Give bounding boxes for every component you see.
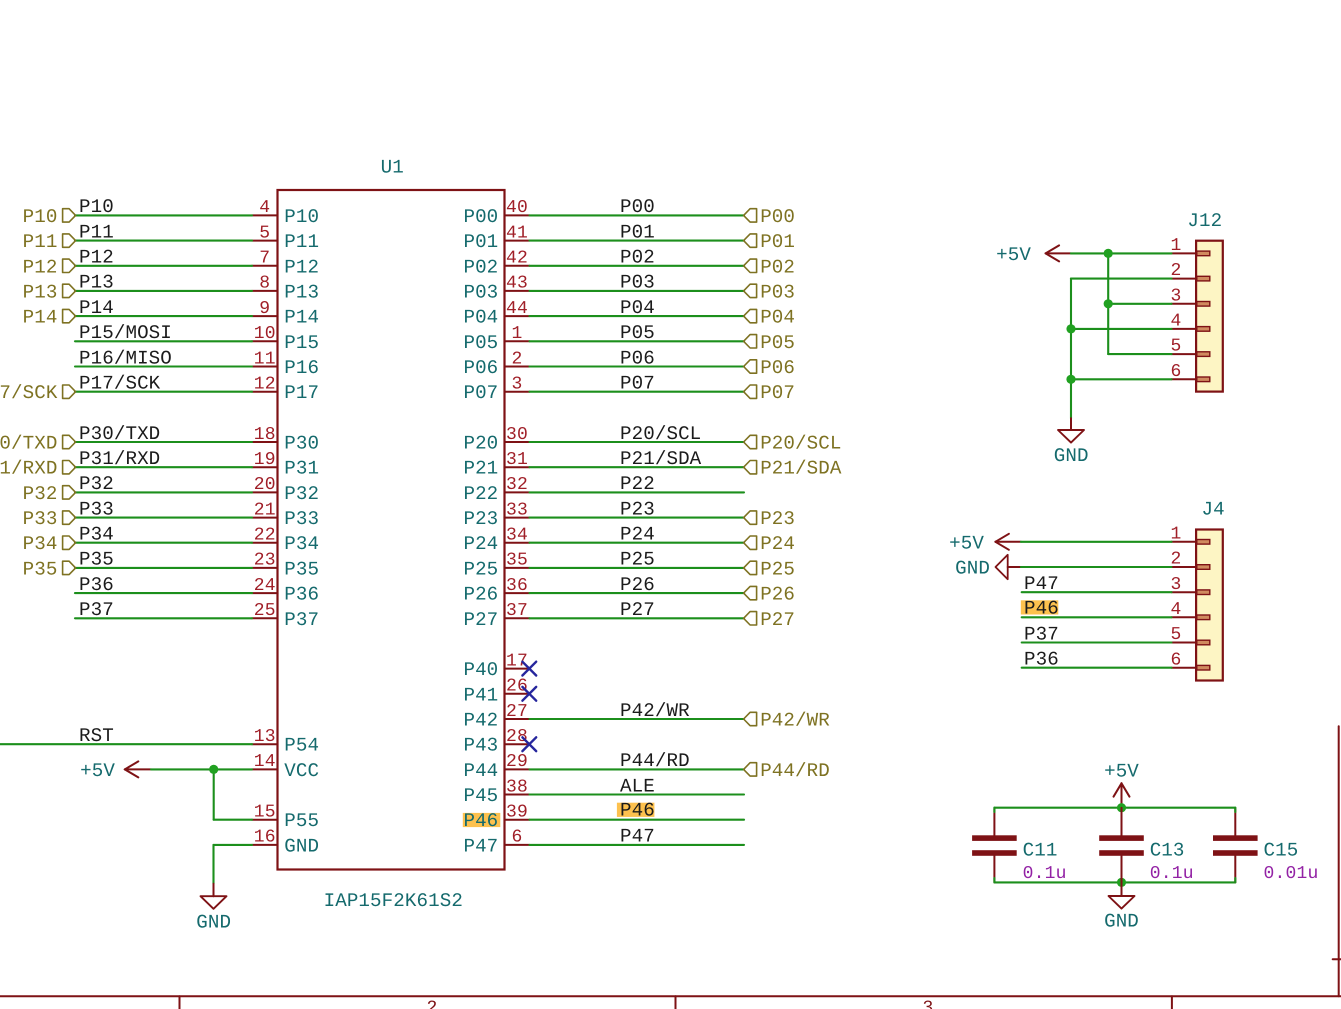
sheet border pin stub at right edge <box>1333 958 1341 960</box>
J12 pin 2 <box>1170 261 1209 281</box>
U1 pin 13 (P54) left side <box>252 727 319 757</box>
svg-text:33: 33 <box>506 500 528 520</box>
no-connect flag at U1 pin 28 <box>522 737 536 751</box>
wire net P31/RXD to U1 left <box>75 466 252 468</box>
ground symbol GND below C13 <box>1104 882 1139 932</box>
hierarchical label P27 (right) <box>744 609 795 631</box>
svg-text:P05: P05 <box>463 332 498 354</box>
wire net P05 from U1 right <box>530 340 745 342</box>
svg-text:P37: P37 <box>284 609 319 631</box>
U1 pin 29 (P44) right side <box>463 752 529 782</box>
hierarchical label P23 (right) <box>744 508 795 530</box>
wire bottom rail corner to C15 <box>1234 878 1236 882</box>
wire net P10 to U1 left <box>75 214 252 216</box>
U1 pin 9 (P14) left side <box>252 299 319 329</box>
svg-text:GND: GND <box>1104 911 1139 933</box>
U1 pin 38 (P45) right side <box>463 777 529 807</box>
power symbol +5V at U1 VCC <box>80 760 151 782</box>
svg-text:P03: P03 <box>463 281 498 303</box>
U1 pin 31 (P21) right side <box>463 450 529 480</box>
net label P42/WR <box>620 700 690 722</box>
net label P11 <box>79 221 114 243</box>
svg-text:P26: P26 <box>760 584 795 606</box>
svg-text:RST: RST <box>79 725 114 747</box>
hierarchical label P20/SCL (right) <box>744 433 842 455</box>
net label P04 <box>620 297 655 319</box>
IC U1 body <box>278 190 505 870</box>
U1 pin 40 (P00) right side <box>463 198 529 228</box>
hierarchical label P06 (right) <box>744 357 795 379</box>
svg-text:P54: P54 <box>284 735 319 757</box>
svg-text:P21/SDA: P21/SDA <box>620 448 702 470</box>
net label P07 <box>620 373 655 395</box>
net label P06 <box>620 347 655 369</box>
svg-text:P16: P16 <box>284 357 319 379</box>
svg-text:P42: P42 <box>463 710 498 732</box>
svg-text:8: 8 <box>259 274 270 294</box>
svg-text:P26: P26 <box>620 574 655 596</box>
wire net P33 to U1 left <box>75 517 252 519</box>
value 0.01u of C15 <box>1264 864 1319 884</box>
wire net P25 from U1 right <box>530 567 745 569</box>
svg-text:P10: P10 <box>23 206 58 228</box>
U1 pin 44 (P04) right side <box>463 299 529 329</box>
svg-text:C15: C15 <box>1264 840 1299 862</box>
wire +5V to U1 pin 14 <box>151 768 252 770</box>
svg-text:36: 36 <box>506 576 528 596</box>
svg-text:P32: P32 <box>79 473 114 495</box>
svg-text:P20/SCL: P20/SCL <box>760 433 841 455</box>
svg-text:28: 28 <box>506 727 528 747</box>
U1 pin 12 (P17) left side <box>252 375 319 405</box>
reference J4 <box>1202 499 1225 521</box>
U1 pin 3 (P07) right side <box>463 375 529 405</box>
net label P14 <box>79 297 114 319</box>
hierarchical label P24 (right) <box>744 533 795 555</box>
svg-text:P32: P32 <box>284 483 319 505</box>
net label P36 <box>79 574 114 596</box>
wire top rail corner to C15 <box>1234 808 1236 812</box>
U1 pin 32 (P22) right side <box>463 475 529 505</box>
wire net P44/RD from U1 right <box>530 768 745 770</box>
svg-text:P36: P36 <box>284 584 319 606</box>
svg-text:P21: P21 <box>463 458 498 480</box>
svg-text:P12: P12 <box>79 247 114 269</box>
net label P13 <box>79 272 114 294</box>
U1 pin 7 (P12) left side <box>252 249 319 279</box>
U1 pin 5 (P11) left side <box>252 223 319 253</box>
connector J12 body <box>1196 241 1223 392</box>
wire net P00 from U1 right <box>530 214 745 216</box>
svg-text:1: 1 <box>511 324 522 344</box>
svg-text:10: 10 <box>254 324 276 344</box>
svg-text:P20/SCL: P20/SCL <box>620 423 701 445</box>
net label P10 <box>79 196 114 218</box>
value 0.1u of C11 <box>1023 864 1067 884</box>
net label P00 <box>620 196 655 218</box>
U1 pin 28 (P43) right side <box>463 727 529 757</box>
wire net P17/SCK to U1 left <box>75 391 252 393</box>
svg-text:14: 14 <box>254 752 276 772</box>
svg-text:P26: P26 <box>463 584 498 606</box>
ground symbol GND below J12 <box>1054 418 1089 467</box>
U1 pin 26 (P41) right side <box>463 677 529 707</box>
svg-text:P35: P35 <box>284 558 319 580</box>
net label P27 <box>620 599 655 621</box>
svg-text:P20: P20 <box>463 433 498 455</box>
svg-text:P37: P37 <box>1024 623 1059 645</box>
wire net P01 from U1 right <box>530 240 745 242</box>
value IAP15F2K61S2 <box>324 890 463 912</box>
junction at +5V rail <box>1117 803 1126 812</box>
svg-text:P30/TXD: P30/TXD <box>79 423 160 445</box>
svg-text:P23: P23 <box>620 498 655 520</box>
sheet column number 2 <box>426 998 437 1009</box>
svg-text:P13: P13 <box>284 281 319 303</box>
svg-text:GND: GND <box>1054 445 1089 467</box>
svg-text:12: 12 <box>254 375 276 395</box>
svg-text:P06: P06 <box>620 347 655 369</box>
J4 pin 3 <box>1170 575 1209 595</box>
svg-text:6: 6 <box>511 828 522 848</box>
net label P20/SCL <box>620 423 701 445</box>
svg-text:+5V: +5V <box>996 244 1031 266</box>
svg-text:P44/RD: P44/RD <box>620 750 690 772</box>
junction at J12 pin 4 node <box>1066 324 1075 333</box>
wire net P26 from U1 right <box>530 592 745 594</box>
svg-text:20: 20 <box>254 475 276 495</box>
hierarchical label P12 (left) <box>23 256 76 278</box>
svg-text:P14: P14 <box>284 307 319 329</box>
svg-text:P02: P02 <box>620 247 655 269</box>
svg-text:J4: J4 <box>1202 499 1225 521</box>
svg-text:25: 25 <box>254 601 276 621</box>
wire net P20/SCL from U1 right <box>530 441 745 443</box>
svg-text:P05: P05 <box>760 332 795 354</box>
svg-text:P31/RXD: P31/RXD <box>0 458 58 480</box>
J12 pin 4 <box>1170 312 1209 332</box>
svg-text:U1: U1 <box>381 157 404 179</box>
hierarchical label P33 (left) <box>23 508 76 530</box>
svg-text:P45: P45 <box>463 785 498 807</box>
svg-text:P34: P34 <box>23 533 58 555</box>
net label P15/MOSI <box>79 322 172 344</box>
wire GND rail (bottom) <box>994 881 1235 883</box>
hierarchical label P05 (right) <box>744 332 795 354</box>
U1 pin 16 (GND) left side <box>252 828 319 858</box>
svg-text:C13: C13 <box>1150 840 1185 862</box>
hierarchical label P32 (left) <box>23 483 76 505</box>
svg-text:P02: P02 <box>463 256 498 278</box>
wire net P37 to U1 left <box>75 617 252 619</box>
svg-text:29: 29 <box>506 752 528 772</box>
hierarchical label P07 (right) <box>744 382 795 404</box>
svg-text:42: 42 <box>506 249 528 269</box>
svg-text:P42/WR: P42/WR <box>760 710 830 732</box>
svg-text:P21/SDA: P21/SDA <box>760 458 842 480</box>
svg-text:P13: P13 <box>23 281 58 303</box>
svg-text:P11: P11 <box>23 231 58 253</box>
net label P12 <box>79 247 114 269</box>
sheet border tick x=675 <box>675 996 677 1009</box>
wire net P24 from U1 right <box>530 542 745 544</box>
ground symbol GND below U1 <box>196 884 231 934</box>
svg-text:P47: P47 <box>620 826 655 848</box>
net label P37 <box>79 599 114 621</box>
net label ALE <box>620 775 655 797</box>
net label P33 <box>79 498 114 520</box>
net label P23 <box>620 498 655 520</box>
power symbol GND at J4 pin 2 <box>955 555 1021 580</box>
svg-text:P00: P00 <box>760 206 795 228</box>
hierarchical label P01 (right) <box>744 231 795 253</box>
U1 pin 22 (P34) left side <box>252 526 319 556</box>
svg-text:P22: P22 <box>620 473 655 495</box>
wire net P32 to U1 left <box>75 491 252 493</box>
junction at +5V/VCC node <box>209 765 218 774</box>
wire net P47 to J4 pin 3 <box>1022 591 1172 593</box>
wire net RST to U1 pin 13 <box>0 743 252 745</box>
hierarchical label P35 (left) <box>23 558 76 580</box>
svg-text:37: 37 <box>506 601 528 621</box>
hierarchical label P11 (left) <box>23 231 76 253</box>
svg-text:P40: P40 <box>463 659 498 681</box>
sheet border tick x=179 <box>179 996 181 1009</box>
svg-text:5: 5 <box>259 223 270 243</box>
svg-text:P14: P14 <box>79 297 114 319</box>
svg-text:P07: P07 <box>760 382 795 404</box>
svg-text:P46: P46 <box>620 800 655 822</box>
net label P44/RD <box>620 750 690 772</box>
hierarchical label P00 (right) <box>744 206 795 228</box>
svg-text:P33: P33 <box>79 498 114 520</box>
svg-text:P27: P27 <box>760 609 795 631</box>
sheet border tick x=1172 <box>1171 996 1173 1009</box>
U1 pin 35 (P25) right side <box>463 551 529 581</box>
U1 pin 18 (P30) left side <box>252 425 319 455</box>
svg-text:30: 30 <box>506 425 528 445</box>
svg-text:15: 15 <box>254 803 276 823</box>
net label P37 at J4 <box>1024 623 1059 645</box>
svg-text:P36: P36 <box>79 574 114 596</box>
svg-text:4: 4 <box>259 198 270 218</box>
U1 pin 39 (P46) right side <box>463 803 530 833</box>
svg-text:43: 43 <box>506 274 528 294</box>
wire GND to J4 pin 2 <box>1021 566 1172 568</box>
svg-text:GND: GND <box>196 912 231 934</box>
wire +5V rail (top) <box>994 807 1235 809</box>
U1 pin 41 (P01) right side <box>463 223 529 253</box>
net label RST <box>79 725 114 747</box>
svg-text:P42/WR: P42/WR <box>620 700 690 722</box>
svg-text:P30/TXD: P30/TXD <box>0 433 58 455</box>
svg-text:P34: P34 <box>284 533 319 555</box>
svg-text:P37: P37 <box>79 599 114 621</box>
svg-text:P46: P46 <box>463 810 498 832</box>
svg-text:P06: P06 <box>760 357 795 379</box>
wire net P07 from U1 right <box>530 391 745 393</box>
J4 pin 1 <box>1170 524 1209 544</box>
svg-text:+5V: +5V <box>80 760 115 782</box>
svg-text:P47: P47 <box>463 835 498 857</box>
svg-text:39: 39 <box>506 803 528 823</box>
net label P02 <box>620 247 655 269</box>
hierarchical label P21/SDA (right) <box>744 458 842 480</box>
svg-text:P00: P00 <box>463 206 498 228</box>
power symbol +5V at J4 pin 1 <box>949 532 1021 554</box>
J12 pin 5 <box>1170 337 1209 357</box>
net label P21/SDA <box>620 448 702 470</box>
power symbol +5V above C13 <box>1104 761 1139 808</box>
svg-text:0.01u: 0.01u <box>1264 864 1319 884</box>
svg-text:P35: P35 <box>79 549 114 571</box>
wire net P22 from U1 right <box>530 491 745 493</box>
hierarchical label P17/SCK (left) <box>0 382 76 404</box>
J4 pin 6 <box>1170 650 1209 670</box>
U1 pin 11 (P16) left side <box>252 349 319 379</box>
wire U1 pin 16 to GND <box>214 845 253 884</box>
hierarchical label P04 (right) <box>744 307 795 329</box>
U1 pin 43 (P03) right side <box>463 274 529 304</box>
hierarchical label P31/RXD (left) <box>0 458 76 480</box>
net label P36 at J4 <box>1024 649 1059 671</box>
wire net P27 from U1 right <box>530 617 745 619</box>
wire net P13 to U1 left <box>75 290 252 292</box>
U1 pin 15 (P55) left side <box>252 803 319 833</box>
svg-text:P25: P25 <box>620 549 655 571</box>
U1 pin 21 (P33) left side <box>252 500 319 530</box>
U1 pin 42 (P02) right side <box>463 249 529 279</box>
svg-text:P04: P04 <box>760 307 795 329</box>
svg-text:17: 17 <box>506 651 528 671</box>
svg-text:P17/SCK: P17/SCK <box>0 382 58 404</box>
svg-text:P23: P23 <box>463 508 498 530</box>
net label P05 <box>620 322 655 344</box>
reference U1 <box>381 157 404 179</box>
U1 pin 4 (P10) left side <box>252 198 319 228</box>
svg-text:P11: P11 <box>79 221 114 243</box>
U1 pin 37 (P27) right side <box>463 601 529 631</box>
svg-text:40: 40 <box>506 198 528 218</box>
svg-text:32: 32 <box>506 475 528 495</box>
junction at J12 pin 1 node <box>1104 249 1113 258</box>
svg-text:P15: P15 <box>284 332 319 354</box>
net label P30/TXD <box>79 423 160 445</box>
svg-text:P03: P03 <box>620 272 655 294</box>
J12 pin 1 <box>1170 236 1209 256</box>
sheet border bottom edge <box>0 995 1341 997</box>
svg-text:0.1u: 0.1u <box>1150 864 1194 884</box>
wire net P11 to U1 left <box>75 240 252 242</box>
svg-text:18: 18 <box>254 425 276 445</box>
U1 pin 20 (P32) left side <box>252 475 319 505</box>
svg-text:3: 3 <box>511 375 522 395</box>
svg-text:ALE: ALE <box>620 775 655 797</box>
hierarchical label P13 (left) <box>23 281 76 303</box>
wire net P34 to U1 left <box>75 542 252 544</box>
wire net P14 to U1 left <box>75 315 252 317</box>
hierarchical label P02 (right) <box>744 256 795 278</box>
hierarchical label P30/TXD (left) <box>0 433 76 455</box>
svg-text:P27: P27 <box>463 609 498 631</box>
svg-text:J12: J12 <box>1187 210 1222 232</box>
J4 pin 5 <box>1170 625 1209 645</box>
net label P17/SCK <box>79 373 161 395</box>
value 0.1u of C13 <box>1150 864 1194 884</box>
svg-text:27: 27 <box>506 702 528 722</box>
svg-text:24: 24 <box>254 576 276 596</box>
svg-text:P02: P02 <box>760 256 795 278</box>
svg-text:P36: P36 <box>1024 649 1059 671</box>
wire net P46 to J4 pin 4 <box>1022 616 1172 618</box>
svg-text:P16/MISO: P16/MISO <box>79 347 172 369</box>
wire net P06 from U1 right <box>530 365 745 367</box>
svg-text:P03: P03 <box>760 281 795 303</box>
svg-text:P12: P12 <box>284 256 319 278</box>
svg-text:P13: P13 <box>79 272 114 294</box>
svg-text:2: 2 <box>426 998 437 1009</box>
hierarchical label P14 (left) <box>23 307 76 329</box>
svg-text:13: 13 <box>254 727 276 747</box>
wire +5V branch down to pin 15 <box>214 769 252 819</box>
U1 pin 6 (P47) right side <box>463 828 529 858</box>
capacitor C13 <box>1099 808 1144 883</box>
net label P22 <box>620 473 655 495</box>
net label P24 <box>620 524 655 546</box>
svg-text:P07: P07 <box>463 382 498 404</box>
junction at J12 pin 6 node <box>1066 375 1075 384</box>
wire net P36 to U1 left <box>75 592 252 594</box>
net label P46 at J4 (highlighted) <box>1021 597 1059 619</box>
svg-text:34: 34 <box>506 526 528 546</box>
J12 pin 3 <box>1170 286 1209 306</box>
svg-text:P32: P32 <box>23 483 58 505</box>
wire net P03 from U1 right <box>530 290 745 292</box>
svg-text:9: 9 <box>259 299 270 319</box>
svg-text:P35: P35 <box>23 558 58 580</box>
net label P03 <box>620 272 655 294</box>
no-connect flag at U1 pin 26 <box>522 687 536 701</box>
svg-text:P14: P14 <box>23 307 58 329</box>
svg-text:P15/MOSI: P15/MOSI <box>79 322 172 344</box>
J4 pin 2 <box>1170 550 1209 570</box>
svg-text:35: 35 <box>506 551 528 571</box>
wire top rail corner to C11 <box>993 808 995 812</box>
wire net P04 from U1 right <box>530 315 745 317</box>
svg-text:P46: P46 <box>1024 597 1059 619</box>
hierarchical label P10 (left) <box>23 206 76 228</box>
net label P16/MISO <box>79 347 172 369</box>
capacitor C15 <box>1213 809 1258 883</box>
svg-text:P34: P34 <box>79 524 114 546</box>
net label P35 <box>79 549 114 571</box>
wire net P42/WR from U1 right <box>530 718 745 720</box>
svg-text:38: 38 <box>506 777 528 797</box>
svg-text:P24: P24 <box>620 524 655 546</box>
wire +5V to J4 pin 1 <box>1021 541 1172 543</box>
svg-text:31: 31 <box>506 450 528 470</box>
U1 pin 23 (P35) left side <box>252 551 319 581</box>
svg-text:2: 2 <box>511 349 522 369</box>
wire net ALE from U1 right <box>530 793 745 795</box>
svg-text:0.1u: 0.1u <box>1023 864 1067 884</box>
reference C11 <box>1023 840 1058 862</box>
hierarchical label P26 (right) <box>744 584 795 606</box>
svg-text:GND: GND <box>955 558 990 580</box>
hierarchical label P34 (left) <box>23 533 76 555</box>
svg-text:P12: P12 <box>23 256 58 278</box>
svg-text:P31/RXD: P31/RXD <box>79 448 160 470</box>
